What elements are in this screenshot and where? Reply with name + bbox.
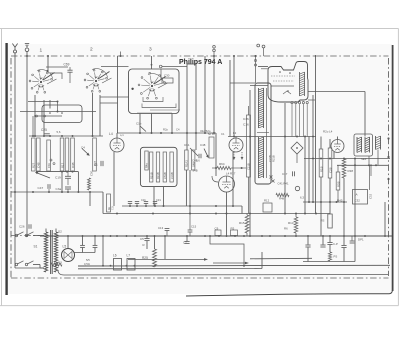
- wire V4 leads: [334, 137, 338, 159]
- svg-text:R2o L4: R2o L4: [323, 129, 333, 133]
- switch contact dots left: [50, 159, 55, 165]
- resistor comb IF left: [247, 106, 251, 214]
- band switch box S-c: [129, 69, 180, 114]
- svg-text:C25: C25: [41, 128, 47, 132]
- resistor comb l: [170, 152, 174, 182]
- svg-text:C31B: C31B: [170, 172, 174, 179]
- capacitor C69: [64, 63, 73, 84]
- wire fan1 down a: [34, 95, 36, 136]
- wire y275 long: [58, 270, 388, 275]
- svg-text:R27: R27: [32, 162, 36, 168]
- arrow down b: [241, 152, 244, 160]
- wire x33 mid: [32, 116, 34, 136]
- wire x205: [204, 56, 206, 133]
- svg-text:C21B: C21B: [247, 163, 251, 170]
- wire V1 leads: [114, 133, 117, 206]
- capacitor speaker 2: [93, 236, 98, 253]
- svg-text:R12: R12: [264, 199, 270, 203]
- svg-text:9o: 9o: [107, 207, 111, 210]
- wire x316: [315, 55, 317, 214]
- output coil extra: [375, 136, 377, 150]
- svg-text:C3a: C3a: [56, 187, 62, 191]
- rotated labels col C21: [268, 155, 276, 162]
- resistor comb n: [191, 150, 195, 170]
- svg-text:R51B: R51B: [149, 172, 153, 179]
- svg-text:C4: C4: [81, 146, 85, 150]
- svg-text:RS: RS: [321, 219, 325, 223]
- junction dots on chassis top: [26, 52, 257, 58]
- IF transformer box: [255, 83, 271, 184]
- step wire bottom mid: [210, 236, 244, 266]
- capacitor trimmer C30: [162, 74, 173, 84]
- wire x161 up: [160, 69, 162, 79]
- svg-text:L7: L7: [127, 254, 131, 258]
- svg-text:7,5: 7,5: [111, 206, 115, 210]
- svg-text:C4B: C4B: [37, 162, 41, 168]
- wire x305: [304, 137, 306, 214]
- wire x172 mid: [171, 114, 173, 134]
- svg-text:C1: C1: [221, 132, 225, 136]
- svg-text:C15: C15: [191, 225, 197, 229]
- earth terminal: [25, 44, 29, 52]
- svg-text:R6: R6: [284, 227, 288, 231]
- wire y261 right: [303, 236, 355, 262]
- svg-text:C21B: C21B: [268, 155, 272, 162]
- triode V1: [109, 132, 124, 152]
- antenna terminal: [12, 44, 17, 54]
- svg-text:3: 3: [149, 47, 152, 53]
- wire x313: [312, 95, 314, 202]
- resistor comb j: [156, 152, 160, 182]
- wire x163 low: [163, 187, 165, 206]
- wire fan2 to box: [100, 96, 129, 98]
- svg-text:C1b: C1b: [136, 122, 142, 126]
- fan2 elbow: [100, 102, 118, 104]
- wire speaker top: [67, 236, 69, 249]
- svg-text:DP1: DP1: [358, 238, 364, 242]
- wire x285: [284, 103, 286, 214]
- wire x196 up: [187, 64, 196, 150]
- svg-text:R4o: R4o: [145, 163, 149, 168]
- capacitor DP1: [350, 236, 364, 243]
- svg-text:C52: C52: [369, 193, 373, 199]
- svg-text:R15: R15: [239, 221, 245, 225]
- wire x365: [364, 92, 366, 137]
- switch row y116: [34, 115, 62, 117]
- tick marks centre: [270, 176, 275, 183]
- choke L6: [113, 254, 122, 271]
- bus y236 main: [11, 235, 392, 237]
- wire x151 mid: [151, 114, 153, 134]
- svg-text:C61: C61: [184, 143, 190, 147]
- pointer arrow line 1: [128, 258, 205, 260]
- svg-text:R5B: R5B: [336, 181, 340, 187]
- wire x234: [233, 56, 235, 137]
- svg-text:R1B: R1B: [319, 166, 323, 172]
- resistor comb f: [71, 138, 75, 171]
- oscillator coil box: [42, 105, 82, 123]
- wire V2 leads: [233, 137, 236, 207]
- wire x230: [229, 60, 231, 137]
- wire x48 fan1 top: [47, 56, 49, 71]
- terminal T1 on chassis line: [213, 46, 216, 57]
- wire x250: [249, 90, 251, 236]
- nested elbow top mid: [137, 110, 180, 113]
- svg-text:C30: C30: [164, 74, 170, 78]
- wire octode to right: [308, 92, 365, 101]
- resistor comb k: [163, 152, 167, 182]
- band switch wafer S-a: [29, 70, 56, 94]
- wire x165 low: [164, 236, 166, 259]
- mains transformer S1: [34, 229, 58, 275]
- wire IF top: [230, 82, 255, 84]
- wire x214: [213, 56, 215, 133]
- svg-text:R17: R17: [60, 162, 64, 168]
- wire fan1 down c: [49, 100, 51, 109]
- svg-text:R1A3: R1A3: [185, 160, 189, 167]
- svg-text:L5: L5: [63, 245, 67, 249]
- wire y111 long: [20, 111, 96, 113]
- bus y136.5 right: [228, 136, 316, 138]
- mains switch upper: [15, 232, 44, 237]
- junction row y202 right: [303, 201, 347, 203]
- switch blade C61: [184, 143, 198, 156]
- capacitor Cc rail: [141, 198, 148, 206]
- bus y266 long: [78, 265, 390, 267]
- svg-text:R13: R13: [288, 221, 294, 225]
- wire x355 up: [354, 159, 356, 237]
- resistor R64: [212, 162, 246, 170]
- svg-text:R2o: R2o: [163, 128, 168, 132]
- capacitor C bottom2: [320, 236, 325, 247]
- wire x140 up: [139, 114, 141, 134]
- wire y258 seg: [250, 257, 312, 260]
- capacitor C26: [19, 224, 31, 228]
- wire S-c top: [151, 56, 153, 69]
- capacitor C25: [41, 128, 61, 136]
- svg-text:PS: PS: [334, 255, 338, 259]
- wire speaker right: [75, 252, 96, 254]
- resistor R12 box: [263, 199, 272, 213]
- capacitor C5: [140, 236, 150, 249]
- wire link a-b: [46, 66, 68, 68]
- terminal T2 on chassis line: [257, 44, 265, 56]
- svg-text:0,5Ω: 0,5Ω: [84, 262, 90, 266]
- tone box A: [353, 190, 373, 205]
- resistor comb r2: [328, 139, 332, 214]
- wire x262 low: [261, 252, 263, 269]
- svg-text:C2B: C2B: [328, 167, 332, 173]
- terminal S-c right: [159, 65, 187, 68]
- resistor R38: [342, 159, 353, 237]
- capacitor C-P: [327, 236, 338, 252]
- speaker matching coil: [51, 263, 62, 266]
- resistor comb g: [93, 138, 97, 171]
- capacitor C19: [55, 172, 71, 185]
- eye elbow: [212, 176, 218, 182]
- resistor R13: [288, 214, 298, 237]
- svg-text:C69: C69: [64, 63, 70, 67]
- switch blade left: [35, 172, 50, 178]
- wire octode left grid: [250, 67, 268, 86]
- svg-text:C41 R41: C41 R41: [278, 182, 289, 186]
- svg-text:C1: C1: [94, 163, 98, 167]
- capacitor C46: [192, 154, 201, 163]
- bus y158.5 right: [304, 158, 390, 160]
- capacitor C3a: [56, 187, 72, 192]
- bus y269: [78, 268, 262, 270]
- choke L7: [127, 254, 136, 271]
- svg-text:5o 5o: 5o 5o: [208, 132, 215, 136]
- svg-text:C50: C50: [89, 170, 93, 176]
- wire x117 avc: [117, 56, 119, 133]
- wire x190 low: [189, 170, 191, 214]
- svg-text:5,6: 5,6: [57, 130, 61, 134]
- svg-text:R45: R45: [337, 199, 343, 203]
- wire x187 up: [186, 64, 188, 150]
- switch blade C18: [136, 122, 146, 132]
- svg-text:S4B: S4B: [191, 162, 195, 167]
- wire x62 low: [61, 171, 63, 192]
- svg-text:S1: S1: [34, 245, 38, 249]
- svg-text:SEP: SEP: [361, 157, 367, 161]
- bus y133 mid: [117, 132, 216, 134]
- svg-text:R: R: [143, 243, 145, 247]
- svg-text:L4 R37: L4 R37: [226, 172, 236, 176]
- wire fan2 down a: [92, 93, 94, 136]
- octode pin wires: [292, 104, 307, 137]
- capacitor C1a: [94, 161, 103, 167]
- rail y213.5: [103, 213, 330, 215]
- pointer arrow line 2: [213, 262, 246, 264]
- band switch wafer S-b: [84, 69, 111, 93]
- wire x90 low: [89, 192, 91, 206]
- svg-text:C36: C36: [243, 117, 249, 121]
- svg-text:C1b: C1b: [47, 162, 51, 168]
- svg-text:1: 1: [40, 48, 43, 54]
- resistor C50 col: [88, 170, 94, 190]
- wire x154 low: [153, 187, 155, 206]
- svg-text:C4: C4: [176, 128, 180, 132]
- capacitor Cd rail: [153, 198, 162, 206]
- wire y101 seg: [28, 101, 59, 113]
- capacitor Ca rail: [128, 202, 132, 206]
- svg-text:C26: C26: [19, 225, 25, 229]
- svg-text:5/5: 5/5: [86, 258, 90, 262]
- band switch wafer S-c: [138, 72, 167, 99]
- capacitor C17: [282, 171, 295, 176]
- svg-text:Philips 794 A: Philips 794 A: [179, 59, 222, 66]
- wire antenna down: [14, 53, 16, 268]
- svg-text:o,1: o,1: [120, 133, 124, 137]
- fan1 junction: [46, 70, 62, 79]
- wire link b-c: [101, 66, 129, 68]
- resistor R4b horizontal: [276, 193, 289, 200]
- wire x309: [308, 137, 310, 203]
- wire V5 lead: [226, 192, 228, 236]
- resistor R15: [239, 214, 249, 237]
- capacitor Cb rail: [135, 202, 139, 206]
- wire output coil: [369, 150, 378, 177]
- svg-text:C48: C48: [200, 143, 206, 147]
- IF output transformer: [354, 134, 373, 161]
- svg-text:L2: L2: [233, 131, 237, 135]
- svg-text:C13: C13: [158, 226, 164, 230]
- wire x186 low: [185, 170, 187, 206]
- resistor comb r1: [319, 137, 323, 237]
- wire fan1 down b: [43, 100, 45, 136]
- resistor comb b: [37, 138, 41, 171]
- switch blade C48: [193, 143, 209, 173]
- wire into IF box: [254, 55, 256, 83]
- capacitor C15: [188, 214, 197, 237]
- svg-text:R38: R38: [348, 169, 354, 173]
- capacitor C47: [38, 184, 51, 192]
- resistor comb e: [65, 138, 69, 171]
- svg-text:2: 2: [90, 47, 93, 53]
- octode tube U1: [268, 62, 308, 103]
- resistor RS: [321, 214, 333, 228]
- dial lamp: [295, 186, 299, 190]
- resistor R5 col: [231, 227, 238, 236]
- svg-text:R25: R25: [142, 256, 148, 260]
- wire x385: [384, 202, 386, 236]
- svg-text:S4B: S4B: [193, 169, 198, 173]
- arrow down a: [233, 152, 236, 160]
- resistor comb i: [149, 152, 153, 182]
- switch blade C4: [81, 146, 90, 156]
- junction dots right edge: [387, 137, 389, 180]
- svg-text:L4: L4: [109, 132, 113, 136]
- wire fan2 down b: [99, 95, 101, 136]
- svg-text:R21B: R21B: [272, 155, 276, 162]
- loudspeaker L5: [62, 245, 75, 262]
- svg-text:C17: C17: [282, 172, 288, 176]
- svg-text:C46: C46: [192, 159, 198, 163]
- wire x370 down: [369, 165, 371, 190]
- diode V3 diamond: [291, 142, 303, 163]
- octode pin row: [291, 102, 308, 104]
- bus y165 right: [337, 164, 389, 166]
- svg-text:R64: R64: [219, 162, 225, 166]
- resistor comb c: [47, 140, 51, 171]
- svg-text:C19: C19: [55, 176, 61, 180]
- svg-text:C16: C16: [243, 123, 249, 127]
- resistor 9o col: [107, 194, 115, 212]
- capacitor C bottom1: [305, 236, 310, 262]
- capacitor C9 col: [215, 227, 222, 236]
- wire earth down: [26, 52, 28, 236]
- tuning eye V5: [219, 172, 236, 193]
- svg-text:6,3: 6,3: [300, 196, 304, 200]
- resistor comb r3: [336, 165, 340, 202]
- resistor 5o block: [208, 132, 215, 158]
- pentode V4: [331, 140, 344, 153]
- bus y136 left: [29, 135, 103, 137]
- bus y171 left: [36, 171, 78, 192]
- bandpass box mid: [140, 147, 177, 186]
- resistor PS: [328, 252, 337, 261]
- resistor comb m: [185, 150, 189, 170]
- svg-text:C47: C47: [38, 186, 44, 190]
- triode V2: [229, 138, 243, 152]
- wire mains left: [15, 267, 44, 269]
- resistor comb a: [32, 138, 36, 171]
- wire x103 low: [102, 236, 104, 266]
- capacitor C7: [183, 236, 190, 245]
- svg-text:R4b: R4b: [279, 196, 285, 200]
- svg-text:R4B: R4B: [71, 162, 75, 168]
- svg-text:C51B: C51B: [163, 172, 167, 179]
- resistor R25: [142, 236, 157, 267]
- chassis boundary dash-dot frame: [11, 56, 389, 278]
- resistor comb d: [60, 138, 64, 171]
- capacitor C13: [158, 226, 169, 236]
- wire x216 mid: [215, 133, 217, 176]
- resistor comb h: [145, 151, 149, 170]
- svg-text:S2: S2: [58, 230, 62, 234]
- capacitor C bottom3: [341, 236, 346, 262]
- svg-text:C32: C32: [355, 199, 361, 203]
- svg-text:C5: C5: [140, 237, 144, 241]
- svg-text:C-P: C-P: [333, 242, 338, 246]
- mains switch lower: [15, 261, 44, 268]
- bus y192 left: [11, 191, 103, 214]
- svg-text:R31B: R31B: [156, 172, 160, 179]
- rail y206: [122, 205, 242, 214]
- capacitor speaker 1: [80, 236, 85, 253]
- svg-text:L6: L6: [113, 254, 117, 258]
